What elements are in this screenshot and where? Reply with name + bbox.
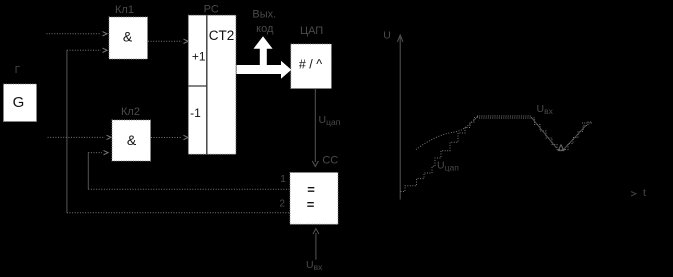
staircase Uцап ascending xyxy=(565,122,592,150)
wire W3 vertical bus from generator xyxy=(66,50,68,213)
svg-text:ЦАП: ЦАП xyxy=(300,25,323,37)
svg-text:&: & xyxy=(127,132,137,148)
svg-text:СС: СС xyxy=(322,155,338,167)
bus block arrow counter to DAC (right) xyxy=(237,61,292,79)
graph U axis vertical xyxy=(397,35,403,200)
svg-text:CT2: CT2 xyxy=(209,28,235,43)
wire W10 Кл2 output to counter -1 xyxy=(151,135,188,139)
gate Кл2 (key 2) xyxy=(112,120,151,161)
curve Uвх descent line xyxy=(532,118,557,149)
staircase Uцап descending xyxy=(531,118,565,150)
wire W2 to Кл1 input 2 xyxy=(67,48,107,52)
wire W9 Кл1 output to counter +1 xyxy=(148,39,188,43)
svg-text:+1: +1 xyxy=(192,50,206,64)
wire W1 to Кл1 input 1 xyxy=(47,32,108,36)
graph t axis arrowhead xyxy=(631,192,636,197)
svg-text:U: U xyxy=(383,30,391,42)
svg-text:РС: РС xyxy=(204,4,219,16)
wire W6 to Кл2 input 2 xyxy=(88,150,108,154)
delta error marker at dip xyxy=(558,145,564,151)
svg-text:Г: Г xyxy=(15,65,21,76)
output code block arrow (up) xyxy=(254,36,273,70)
curve Uвх ascent line xyxy=(564,126,587,150)
wire W7 comparator output 1 feedback xyxy=(88,188,289,190)
generator G box xyxy=(4,84,37,122)
curve Uвх input signal rising part xyxy=(416,116,478,149)
svg-text:# / ^: # / ^ xyxy=(299,58,322,72)
svg-text:Кл1: Кл1 xyxy=(115,4,134,16)
svg-text:код: код xyxy=(256,23,274,35)
wire W5 vertical comparator out1 riser xyxy=(87,153,89,190)
svg-text:=: = xyxy=(307,197,315,212)
wire W11 DAC output to comparator xyxy=(312,89,318,167)
gate Кл1 (key 1) xyxy=(109,17,148,59)
svg-text:Вых.: Вых. xyxy=(252,9,276,21)
staircase Uцап rising xyxy=(401,118,479,192)
wire W12 comparator input Uвх from below xyxy=(313,229,319,260)
svg-text:=: = xyxy=(307,182,315,197)
DAC ЦАП box xyxy=(291,44,332,89)
curve plateau (Uвх and Uцап overlapping) xyxy=(477,116,531,118)
svg-text:G: G xyxy=(13,94,25,111)
counter CT2 box xyxy=(188,15,236,154)
svg-text:2: 2 xyxy=(279,198,285,209)
svg-text:&: & xyxy=(123,29,133,45)
staircase top dotted flat right xyxy=(582,122,592,124)
wire W4 to Кл2 input 1 xyxy=(48,135,111,139)
svg-text:1: 1 xyxy=(280,174,286,185)
wire W8 comparator output 2 feedback xyxy=(67,212,289,214)
comparator СС box xyxy=(290,173,338,225)
svg-text:Кл2: Кл2 xyxy=(121,106,140,118)
svg-text:t: t xyxy=(643,187,646,199)
svg-text:-1: -1 xyxy=(190,106,201,120)
